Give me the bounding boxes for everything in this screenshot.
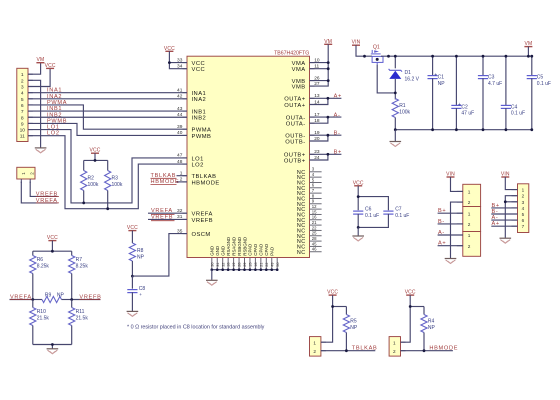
svg-text:R10: R10 (37, 309, 46, 315)
junction D1 top (394, 55, 397, 58)
ground (C6 C7) (352, 236, 364, 241)
wire OUTB- (U1 pins) (310, 134, 342, 136)
svg-text:OUTA+: OUTA+ (284, 103, 305, 109)
junction 7-pin ground (504, 200, 507, 203)
svg-text:2: 2 (313, 349, 316, 354)
wire PWMA (J1 pin6 to U1 pin39) (28, 105, 187, 129)
wire B+ (connector) (438, 212, 463, 214)
transistor Q1 (reverse protection MOSFET) (371, 44, 383, 64)
wire INB1 (J1 pin7 to U1 pin43) (28, 110, 187, 112)
wire LO2 (J1 pin11 to U1 pin48, via R3) (28, 136, 187, 209)
resistor R8 (131, 231, 133, 243)
svg-text:R1: R1 (399, 103, 406, 109)
svg-text:INA1: INA1 (47, 88, 62, 94)
svg-text:C3: C3 (488, 75, 495, 81)
svg-text:R5: R5 (350, 318, 357, 324)
2-pin jumper (HBMODE) (389, 337, 400, 357)
jumper stubs (HBMODE) (401, 341, 406, 343)
svg-text:15: 15 (249, 262, 253, 266)
junction C6 bottom (357, 226, 360, 229)
U1 left pin numbers (177, 57, 183, 234)
junction C1 top (431, 55, 434, 58)
2-pin connector block (B+ B-) (463, 207, 481, 232)
wire Q1 drain to VM rail (381, 55, 532, 57)
svg-text:OUTB-: OUTB- (285, 139, 305, 145)
capacitor C1 (432, 56, 434, 76)
wire INA1 (J1 pin4 to U1 pin41) (28, 92, 187, 94)
junction R1 bottom (394, 128, 397, 131)
svg-text:C4: C4 (511, 105, 518, 111)
svg-text:OUTB+: OUTB+ (284, 158, 306, 164)
svg-text:8: 8 (21, 115, 24, 121)
junction C2 top (455, 55, 458, 58)
2-pin connector block (A- A+) (463, 232, 481, 257)
junction R8 C8 OSCM (131, 275, 134, 278)
svg-text:49: 49 (270, 262, 274, 266)
wire VREFB stub (U1 pin31) (148, 218, 187, 220)
svg-text:PWMA: PWMA (47, 100, 67, 106)
svg-text:4: 4 (21, 91, 24, 97)
svg-text:VCC: VCC (192, 61, 206, 67)
junction D1/R1/gate (394, 92, 397, 95)
svg-text:4.7 uF: 4.7 uF (488, 81, 502, 87)
svg-text:HBMODE: HBMODE (429, 345, 458, 351)
svg-text:100k: 100k (399, 110, 410, 116)
svg-text:INA2: INA2 (47, 94, 62, 100)
svg-text:18: 18 (227, 262, 231, 266)
junction C6 top (357, 195, 360, 198)
wire A+ (7-pin) (491, 225, 517, 227)
svg-text:R9: R9 (45, 293, 52, 299)
wire VCC to R5 and jumper (321, 295, 333, 342)
svg-text:2: 2 (21, 78, 24, 84)
capacitor C7 (383, 210, 393, 212)
junction OUTB- (327, 134, 330, 137)
svg-text:LO2: LO2 (192, 163, 204, 169)
svg-text:8.25k: 8.25k (37, 264, 50, 270)
svg-text:LO2: LO2 (47, 131, 60, 137)
svg-text:6: 6 (21, 103, 24, 109)
svg-text:LO1: LO1 (192, 156, 204, 162)
svg-text:INB1: INB1 (47, 106, 62, 112)
capacitor C8 (131, 276, 133, 289)
svg-text:15: 15 (312, 209, 317, 214)
wire 7-pin pins2-3 to ground (505, 196, 517, 238)
svg-text:R6: R6 (37, 257, 44, 263)
resistor R2 (83, 160, 85, 170)
bottom ground rail (power input) (395, 129, 532, 131)
svg-text:B-: B- (438, 219, 445, 225)
wire jumper pin1 VREFA (21, 182, 57, 203)
svg-text:B+: B+ (334, 150, 342, 156)
svg-text:21.5k: 21.5k (37, 316, 50, 322)
junction VCC pins (168, 61, 171, 64)
wire GND bus to ground (211, 270, 213, 280)
resistor R10 (32, 300, 34, 308)
svg-text:VREFB: VREFB (151, 214, 173, 220)
wire TBLKAB (321, 350, 375, 352)
svg-text:1: 1 (468, 190, 471, 195)
wire VM to rail (527, 47, 529, 57)
svg-text:A+: A+ (438, 241, 446, 247)
capacitor C4 (505, 56, 507, 105)
svg-text:CPAD: CPAD (264, 244, 269, 256)
svg-text:VMA: VMA (292, 61, 306, 67)
junction C5 bottom (530, 128, 533, 131)
svg-text:25: 25 (312, 231, 317, 236)
U1 bottom pad names GND RSAGND RSBGND CPAD PAD (210, 237, 275, 256)
svg-text:TBLKAB: TBLKAB (352, 345, 378, 351)
wire A+ (connector) (438, 245, 463, 247)
IC U1 TB67H420FTG body (187, 56, 310, 257)
junction VMB pin26 (327, 79, 330, 82)
svg-text:21.5k: 21.5k (76, 316, 89, 322)
svg-text:46: 46 (312, 247, 317, 252)
U1 right pin names (284, 61, 306, 164)
svg-text:C2: C2 (461, 105, 468, 111)
svg-text:PAD: PAD (270, 247, 275, 256)
junction R3 / LO2 (106, 207, 109, 210)
ground under C8 (127, 311, 139, 316)
svg-text:2: 2 (468, 222, 471, 227)
svg-text:R11: R11 (76, 309, 85, 315)
ground under divider (47, 349, 59, 354)
11-pin header J1 (17, 68, 28, 141)
junction OUTA- (327, 116, 330, 119)
junction VCC divider (51, 250, 54, 253)
svg-text:47 uF: 47 uF (461, 111, 474, 117)
junction C5 top (530, 55, 533, 58)
junction C1 bottom (431, 128, 434, 131)
svg-text:100k: 100k (88, 182, 99, 188)
junction C3 bottom (482, 128, 485, 131)
svg-text:R2: R2 (88, 175, 95, 181)
svg-text:R4: R4 (428, 318, 435, 324)
svg-text:7: 7 (21, 109, 24, 115)
svg-text:RSAGND: RSAGND (226, 237, 231, 256)
svg-text:A-: A- (492, 215, 499, 221)
wire INB2 (J1 pin8 to U1 pin44) (28, 116, 187, 118)
wire HBMODE stub (U1 pin2) (177, 181, 188, 183)
wire VIN to 7-pin pin1 (505, 177, 517, 190)
U1 NC pin names (297, 170, 306, 256)
junction R2 / LO1 (82, 202, 85, 205)
U1 right pin numbers (314, 57, 320, 160)
svg-text:* 0 Ω resistor placed in C8 lo: * 0 Ω resistor placed in C8 location for… (127, 325, 265, 331)
svg-text:PWMB: PWMB (47, 118, 67, 124)
ground (power input) (390, 142, 402, 147)
junction Q1 drain (387, 55, 390, 58)
svg-text:R7: R7 (76, 257, 83, 263)
svg-text:B+: B+ (492, 203, 500, 209)
wire PWMB (J1 pin9 to U1 pin40) (28, 123, 187, 135)
svg-text:OSCM: OSCM (192, 232, 211, 238)
junction VCC R5 (331, 305, 334, 308)
svg-text:9: 9 (21, 121, 24, 127)
junction divider bottom (51, 343, 54, 346)
wire VCC to R2 R3 (94, 153, 96, 160)
jumper pin stubs (20, 179, 22, 183)
wire OSCM (to U1 pin35) (132, 234, 187, 277)
svg-text:CPAD: CPAD (248, 244, 253, 256)
svg-text:INB2: INB2 (192, 116, 207, 122)
U1 left pin stubs (183, 63, 188, 234)
J1 pin stubs (28, 74, 33, 136)
junction at Q1 source (363, 55, 366, 58)
svg-text:3: 3 (522, 200, 525, 205)
svg-text:D1: D1 (405, 70, 412, 76)
wire J1 pin3 to VCC (28, 68, 50, 86)
svg-text:2: 2 (393, 349, 396, 354)
7-pin connector (518, 184, 529, 233)
svg-text:12: 12 (312, 204, 317, 209)
svg-text:VREFB: VREFB (192, 218, 214, 224)
zener diode D1 (389, 69, 402, 79)
capacitor C6 (353, 210, 363, 212)
svg-text:INB2: INB2 (47, 112, 62, 118)
svg-text:RSAGND: RSAGND (231, 237, 236, 256)
svg-text:NP: NP (57, 293, 65, 299)
svg-text:16: 16 (312, 215, 317, 220)
svg-text:10: 10 (20, 128, 26, 134)
U1 bottom pad stubs and pin numbers (210, 258, 279, 270)
svg-text:16.2 V: 16.2 V (405, 76, 420, 82)
svg-text:100k: 100k (112, 182, 123, 188)
svg-text:NP: NP (428, 325, 436, 331)
svg-text:VCC: VCC (192, 67, 206, 73)
junction VMA pin10 (327, 61, 330, 64)
svg-text:28: 28 (312, 236, 317, 241)
U1 left pin names (192, 61, 220, 238)
wire VREFB (divider tap) (72, 299, 101, 301)
svg-text:0.1 uF: 0.1 uF (395, 213, 409, 219)
svg-text:1: 1 (468, 211, 471, 216)
wire VIN to connector pin1 (451, 177, 463, 191)
ground below J1 (35, 148, 47, 153)
GND bus wire under U1 (212, 269, 277, 271)
junction VREFA tap (31, 298, 34, 301)
svg-text:0.1 uF: 0.1 uF (511, 111, 525, 117)
svg-text:1: 1 (468, 233, 471, 238)
wire VREFA (divider tap) (10, 299, 33, 301)
wire A- (7-pin) (491, 219, 517, 221)
wire VCC to R6 R7 (51, 241, 53, 252)
svg-text:28: 28 (238, 262, 242, 266)
svg-text:19: 19 (232, 262, 236, 266)
svg-text:2: 2 (468, 200, 471, 205)
wire jumper pin2 VREFB (30, 182, 57, 197)
wire VM rail to D1 (394, 56, 396, 68)
svg-text:1: 1 (393, 340, 396, 345)
svg-text:29: 29 (243, 262, 247, 266)
svg-text:C7: C7 (395, 207, 402, 213)
junction C3 top (482, 55, 485, 58)
svg-text:6: 6 (522, 218, 525, 223)
wire VCC to R4 and jumper (401, 295, 411, 342)
svg-text:4: 4 (522, 206, 525, 211)
svg-text:22: 22 (312, 225, 317, 230)
svg-text:VMB: VMB (292, 85, 306, 91)
svg-text:INA2: INA2 (192, 97, 207, 103)
2-pin connector stubs (457, 191, 463, 245)
junction VCC R4 (409, 305, 412, 308)
7-pin connector stubs (512, 190, 518, 227)
svg-text:NP: NP (350, 325, 358, 331)
svg-text:C6: C6 (365, 207, 372, 213)
ground (output connector) (445, 259, 457, 264)
wire C6 C7 to ground (357, 227, 359, 235)
wire VCC to C6 C7 (357, 186, 359, 210)
junction VREFB tap (70, 298, 73, 301)
2-pin connector block (VIN GND) (463, 184, 481, 206)
svg-text:CPAD: CPAD (253, 244, 258, 256)
svg-text:21: 21 (259, 262, 263, 266)
svg-text:0.1 uF: 0.1 uF (537, 81, 551, 87)
svg-text:B+: B+ (438, 208, 446, 214)
svg-text:B-: B- (492, 209, 499, 215)
svg-text:OUTA+: OUTA+ (284, 97, 305, 103)
resistor R6 (32, 251, 34, 255)
ground (7-pin connector) (500, 238, 512, 243)
capacitor C3 (482, 56, 484, 76)
resistor R7 (71, 251, 73, 255)
svg-text:1: 1 (313, 340, 316, 345)
wire VM trunk to VMA VMB pins (310, 44, 329, 86)
U1 right pin stubs (310, 63, 315, 160)
svg-text:3: 3 (21, 85, 24, 91)
svg-text:8.25k: 8.25k (76, 264, 89, 270)
U1 NC pin stubs and numbers (310, 167, 322, 252)
jumper stubs (TBLKAB) (321, 341, 326, 343)
svg-text:PWMA: PWMA (192, 128, 212, 134)
wire LO1 (J1 pin10 to U1 pin47, via R2) (28, 130, 187, 203)
junction OUTB+ (327, 153, 330, 156)
svg-text:INA1: INA1 (192, 91, 207, 97)
svg-text:TBLKAB: TBLKAB (192, 174, 217, 180)
resistor R9 (33, 299, 42, 301)
svg-text:A-: A- (334, 112, 341, 118)
2-pin jumper (VREFA/VREFB select) (17, 167, 35, 179)
junction C4 bottom (505, 128, 508, 131)
svg-text:TB67H420FTG: TB67H420FTG (274, 50, 309, 56)
svg-text:LO1: LO1 (47, 125, 60, 131)
svg-text:16: 16 (254, 262, 258, 266)
svg-text:2: 2 (468, 244, 471, 249)
ground under U1 (206, 280, 218, 285)
svg-text:5: 5 (522, 212, 525, 217)
svg-text:C1: C1 (438, 75, 445, 81)
svg-text:11: 11 (20, 134, 25, 140)
svg-text:Q1: Q1 (373, 44, 380, 50)
wire D1 anode to R1 (394, 79, 396, 100)
junction R4 bottom (423, 349, 426, 352)
capacitor C5 (531, 56, 533, 76)
svg-text:R8: R8 (137, 248, 144, 254)
resistor R11 (71, 300, 73, 308)
svg-text:RSBGND: RSBGND (242, 237, 247, 256)
wire divider bottom (33, 344, 72, 346)
svg-text:31: 31 (216, 262, 220, 266)
svg-text:C5: C5 (537, 75, 544, 81)
svg-text:32: 32 (221, 262, 225, 266)
svg-text:2: 2 (522, 194, 525, 199)
svg-text:GND: GND (210, 246, 215, 256)
svg-text:CPAD: CPAD (259, 244, 264, 256)
svg-text:A+: A+ (334, 94, 342, 100)
wire B+ (7-pin) (491, 207, 517, 209)
svg-text:22: 22 (265, 262, 269, 266)
svg-text:45: 45 (312, 241, 317, 246)
wire J1 pin2 to ground (28, 80, 41, 147)
svg-text:VREFA: VREFA (151, 208, 173, 214)
wire OUTA- (U1 pins) (310, 116, 342, 118)
wire Q1 gate to D1/R1 node (377, 65, 395, 93)
svg-text:+: + (139, 292, 142, 297)
svg-text:A+: A+ (492, 221, 500, 227)
svg-text:NC: NC (297, 250, 306, 256)
wire VCC to U1 pin33 pin34 (169, 51, 187, 68)
wire rail to ground (394, 130, 396, 142)
junction VM riser (527, 55, 530, 58)
svg-text:HBMODE: HBMODE (192, 180, 220, 186)
svg-text:7: 7 (522, 224, 525, 229)
resistor R1 (392, 99, 398, 118)
wire B- (connector) (438, 223, 463, 225)
resistor R4 (423, 307, 425, 315)
svg-text:RSBGND: RSBGND (237, 237, 242, 256)
wire J1 pin1 to VM (28, 63, 41, 74)
junction R5 bottom (345, 349, 348, 352)
junction C4 top (505, 55, 508, 58)
svg-text:5: 5 (21, 97, 24, 103)
wire OUTA+ (U1 pins) (310, 97, 342, 99)
svg-text:VMA: VMA (292, 67, 306, 73)
svg-text:NP: NP (137, 255, 145, 261)
svg-text:PWMB: PWMB (192, 134, 212, 140)
svg-text:0.1 uF: 0.1 uF (365, 213, 379, 219)
wire connector pin2 to ground (451, 202, 463, 258)
svg-text:OUTA-: OUTA- (286, 116, 306, 122)
wire B- (7-pin) (491, 213, 517, 215)
svg-text:A-: A- (438, 230, 445, 236)
svg-text:VREFA: VREFA (192, 212, 213, 218)
svg-text:OUTA-: OUTA- (286, 122, 306, 128)
wire INA2 (J1 pin5 to U1 pin42) (28, 98, 187, 100)
capacitor C2 (455, 56, 457, 105)
svg-text:1: 1 (21, 72, 24, 78)
resistor R3 (107, 160, 109, 170)
svg-text:R3: R3 (112, 175, 119, 181)
wire VIN to Q1 (356, 45, 372, 56)
junction VMA pin11 (327, 67, 330, 70)
resistor R5 (345, 307, 347, 315)
wire HBMODE (401, 350, 453, 352)
junction C2 bottom (455, 128, 458, 131)
svg-text:B-: B- (334, 130, 341, 136)
svg-text:1: 1 (522, 188, 525, 193)
wire A- (connector) (438, 234, 463, 236)
junction VCC node (94, 159, 97, 162)
svg-text:GND: GND (215, 246, 220, 256)
junctions on GND bus (211, 268, 279, 271)
svg-text:21: 21 (312, 220, 317, 225)
svg-text:50: 50 (276, 262, 280, 266)
wire TBLKAB stub (U1 pin1) (177, 175, 188, 177)
wire OUTB+ (U1 pins) (310, 153, 342, 155)
junction OUTA+ (327, 97, 330, 100)
svg-text:GND: GND (221, 246, 226, 256)
wire VREFA stub (U1 pin32) (148, 212, 187, 214)
